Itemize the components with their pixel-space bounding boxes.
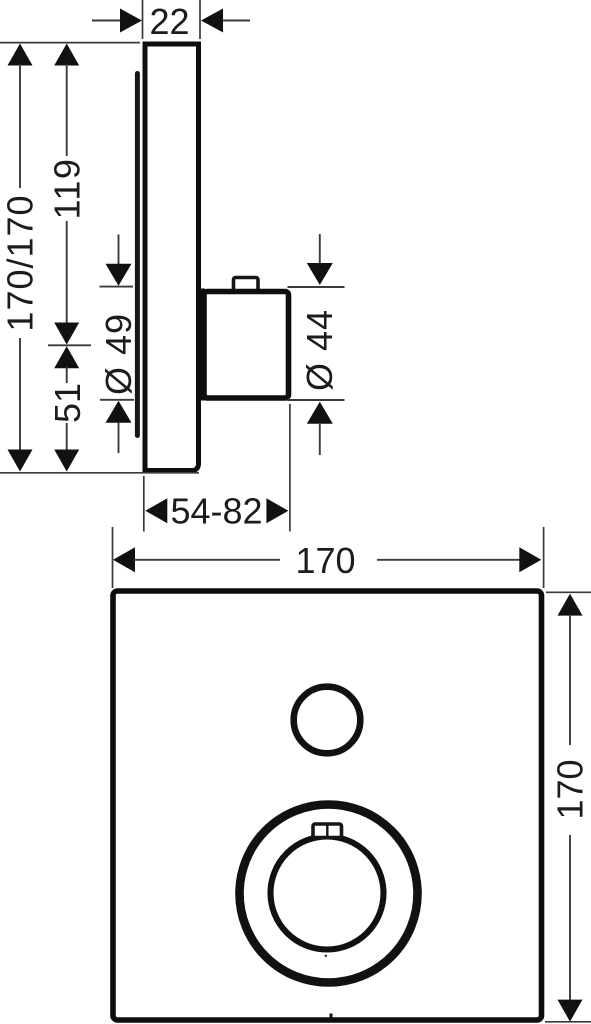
- dim 170/170: bottom arrow: [8, 450, 33, 472]
- dim 119: lower line: [66, 221, 68, 323]
- dim 51: bottom arrow: [54, 450, 79, 472]
- dim 22: left arrow: [120, 9, 142, 33]
- dim 119: top arrow: [54, 44, 79, 66]
- svg-text:170: 170: [550, 759, 591, 819]
- dim 170 vertical: top extension line: [546, 591, 591, 593]
- dim 170 horizontal: right line: [377, 559, 520, 561]
- escutcheon plate (side view): [145, 44, 199, 471]
- front view: knob grip tab divider: [326, 824, 328, 838]
- svg-text:22: 22: [149, 1, 189, 42]
- dim 170 horizontal: right arrow: [519, 547, 541, 572]
- dim 170 vertical: upper line: [569, 615, 571, 746]
- dim D44: top tick: [288, 286, 345, 288]
- dim 170 vertical: bottom extension line: [545, 1021, 591, 1023]
- dim D49: upper line: [118, 235, 120, 266]
- front view: thermostat knob outer circle: [240, 805, 418, 983]
- dim 170/170: upper line: [19, 64, 21, 188]
- svg-text:170/170: 170/170: [0, 194, 41, 331]
- dim 170 vertical: lower line: [569, 835, 571, 1001]
- svg-text:119: 119: [47, 158, 88, 220]
- tick between 119 and 51: [48, 344, 91, 346]
- dim 22: extension line left: [142, 0, 144, 39]
- front view: knob center dot: [325, 955, 328, 958]
- dim 54-82: left extension line: [143, 476, 145, 532]
- dim 170 horizontal: left extension line: [112, 527, 114, 588]
- dim D44: bottom tick: [288, 399, 345, 401]
- dim 119: upper line: [66, 64, 68, 156]
- dim 54-82: right extension line: [289, 404, 291, 532]
- svg-text:Ø 49: Ø 49: [98, 313, 139, 395]
- front view: select button circle: [294, 687, 361, 754]
- dim 170 horizontal: left line: [134, 559, 280, 561]
- dim 170/170: lower line: [19, 338, 21, 450]
- dim 51: top arrow: [54, 346, 79, 368]
- svg-text:170: 170: [295, 540, 355, 581]
- wall flange strip (behind escutcheon, side view): [135, 74, 140, 436]
- svg-text:Ø 44: Ø 44: [299, 309, 340, 391]
- dim 51: upper line: [66, 367, 68, 383]
- dim D44: up arrow: [307, 402, 333, 424]
- dim 170/170: top arrow: [8, 44, 33, 66]
- dim D49: top tick: [100, 286, 134, 288]
- front view: bottom center tick: [330, 1014, 333, 1022]
- front view: escutcheon square: [113, 591, 542, 1020]
- thermostat handle body (side view): [204, 292, 289, 399]
- svg-text:51: 51: [47, 383, 88, 423]
- dim 170 vertical: top arrow: [558, 594, 583, 616]
- dim 22: left leader: [92, 20, 121, 22]
- front view: thermostat knob inner circle: [271, 837, 384, 950]
- dim 170 horizontal: right extension line: [543, 527, 545, 588]
- dim 51: lower line: [66, 423, 68, 450]
- knob stem tab (side view): [234, 278, 259, 292]
- dim 54-82: left arrow: [145, 498, 167, 523]
- dim 170 horizontal: left arrow: [113, 547, 135, 572]
- dim 170 vertical: bottom arrow: [558, 1000, 583, 1022]
- handle left edge thick line: [197, 289, 205, 401]
- dim 119: bottom arrow: [54, 323, 79, 345]
- svg-text:54-82: 54-82: [170, 491, 262, 532]
- dim D44: lower line: [319, 423, 321, 455]
- dim D49: lower line: [118, 422, 120, 453]
- dim D49: down arrow: [106, 264, 132, 286]
- dim D44: down arrow: [307, 263, 333, 285]
- front view: knob grip tab: [313, 824, 342, 838]
- dim D49: up arrow: [106, 401, 132, 423]
- dim 54-82: right arrow: [266, 498, 288, 523]
- dim D49: bottom tick: [100, 399, 134, 401]
- dim 22: right arrow: [201, 9, 223, 33]
- dim D44: upper line: [319, 234, 321, 264]
- dim 22: extension line right: [199, 0, 201, 39]
- extension line top (y=42.6): [0, 42, 140, 44]
- extension line bottom (y=472.5): [0, 472, 199, 474]
- dim 22: right leader: [223, 20, 250, 22]
